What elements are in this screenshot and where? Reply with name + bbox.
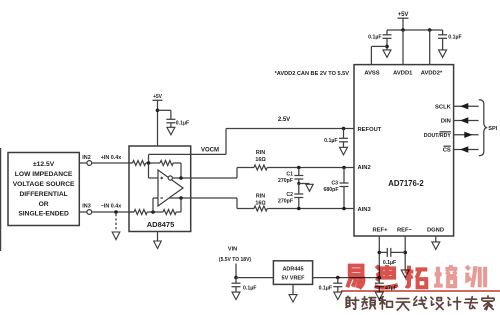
optional ground (dashed) on -IN xyxy=(112,214,120,240)
wire REF- xyxy=(404,236,406,270)
wire -IN to AD8475 xyxy=(92,211,134,213)
svg-text:0.1µF: 0.1µF xyxy=(448,35,461,41)
svg-text:RIN: RIN xyxy=(256,150,265,156)
node AVDD2 rail xyxy=(428,28,432,32)
label +IN 0.4x xyxy=(101,155,122,161)
wire SCLK xyxy=(454,105,479,107)
node C2 bottom xyxy=(297,207,301,211)
svg-text:+IN 0.4x: +IN 0.4x xyxy=(101,155,122,161)
watermark red underline xyxy=(341,290,500,292)
capacitor 0.1uF (VIN) xyxy=(232,278,257,293)
wire +IN from source to terminal xyxy=(79,162,87,164)
wire ADR445 out to REF+ xyxy=(313,277,380,279)
capacitor 0.1uF left (AVSS) xyxy=(368,30,391,50)
resistor input R bottom xyxy=(129,210,163,215)
watermark slogan char 5 xyxy=(414,297,427,309)
terminal IN3 xyxy=(82,204,91,215)
svg-text:REF−: REF− xyxy=(397,228,413,234)
svg-text:270pF: 270pF xyxy=(278,198,293,204)
label 2.5V xyxy=(278,117,290,123)
svg-text:AVSS: AVSS xyxy=(364,71,379,77)
svg-text:VIN: VIN xyxy=(228,247,237,253)
watermark logo big char 5 xyxy=(466,266,485,287)
resistor feedback R bottom xyxy=(163,198,181,215)
pin REFOUT xyxy=(358,127,382,133)
pin DIN xyxy=(441,119,451,125)
note AVDD2 xyxy=(275,71,350,77)
svg-text:AVDD2*: AVDD2* xyxy=(421,71,443,77)
svg-text:IN2: IN2 xyxy=(82,155,90,161)
svg-text:DIFFERENTIAL: DIFFERENTIAL xyxy=(19,191,67,198)
op-amp triangle U1 xyxy=(158,170,183,206)
wire DGND xyxy=(435,236,437,242)
resistor RIN top 16ohm xyxy=(254,150,267,170)
wire top output to AIN2 level xyxy=(191,168,254,179)
watermark slogan char 3 xyxy=(379,297,392,309)
ground (DGND) xyxy=(432,242,440,250)
svg-text:AIN2: AIN2 xyxy=(358,165,371,171)
svg-text:C2: C2 xyxy=(286,192,293,198)
ground (AD8475 supply cap) xyxy=(167,127,175,135)
svg-text:0.1µF: 0.1µF xyxy=(368,35,381,41)
node C1-C2 midpoint xyxy=(297,182,300,185)
capacitor 0.1uF (REFOUT) xyxy=(324,129,348,148)
svg-text:*AVDD2 CAN BE 2V TO 5.5V: *AVDD2 CAN BE 2V TO 5.5V xyxy=(275,71,350,77)
label -IN 0.4x xyxy=(101,204,122,210)
wire CS xyxy=(454,149,479,151)
svg-text:ADR445: ADR445 xyxy=(282,267,303,273)
node REF+ bottom xyxy=(378,276,382,280)
ground (VREF 0.1uF) xyxy=(334,292,342,300)
capacitor C1 270pF xyxy=(278,168,303,185)
wire bottom output xyxy=(169,197,191,199)
watermark logo big char 4 xyxy=(434,265,457,286)
watermark slogan char 6 xyxy=(431,297,443,309)
watermark logo big char 1 xyxy=(347,266,363,289)
wire VIN xyxy=(235,264,237,278)
arrow DIN (in) xyxy=(460,117,468,123)
supply rail xyxy=(387,29,443,31)
svg-text:CS: CS xyxy=(443,148,451,154)
node A top summing xyxy=(147,161,151,165)
wire node A to amp input xyxy=(149,163,159,178)
wire AVDD1 xyxy=(402,30,404,65)
capacitor 0.1uF (VREF) xyxy=(319,278,343,293)
watermark slogan char 1 xyxy=(346,296,359,309)
ground (ADR445) xyxy=(289,284,297,302)
wire -IN from source to terminal xyxy=(79,211,87,213)
watermark logo big char 3 xyxy=(405,266,428,288)
label VIN xyxy=(219,247,251,264)
svg-text:270pF: 270pF xyxy=(278,178,293,184)
terminal IN2 xyxy=(82,155,91,165)
svg-text:0.1µF: 0.1µF xyxy=(383,260,396,266)
svg-text:DGND: DGND xyxy=(427,228,444,234)
wire AVSS xyxy=(371,46,387,64)
wire to AIN3 xyxy=(267,208,354,210)
wire REF+ xyxy=(378,236,380,278)
svg-text:680pF: 680pF xyxy=(324,187,339,193)
svg-text:±12.5V: ±12.5V xyxy=(33,161,55,168)
svg-text:VOLTAGE SOURCE: VOLTAGE SOURCE xyxy=(13,181,75,188)
ground (VIN cap) xyxy=(232,292,240,300)
svg-text:0.1µF: 0.1µF xyxy=(324,138,337,144)
svg-text:OR: OR xyxy=(39,201,49,208)
scan edge artifact line xyxy=(0,148,2,251)
node C3 top xyxy=(342,166,346,170)
wire VIN to ADR445 xyxy=(236,277,273,279)
inversion bubble top output xyxy=(168,176,172,180)
svg-text:2.5V: 2.5V xyxy=(278,117,290,123)
node ADR out cap xyxy=(336,276,340,280)
svg-text:LOW IMPEDANCE: LOW IMPEDANCE xyxy=(15,171,73,178)
pin DOUT/RDY (overline RDY) xyxy=(424,132,452,139)
capacitor 47uF (VREF) xyxy=(375,278,397,293)
node VIN xyxy=(234,276,238,280)
capacitor 0.1uF right (AVDD2) xyxy=(438,30,462,50)
node top output xyxy=(179,176,183,180)
svg-text:0.1µF: 0.1µF xyxy=(319,286,332,292)
svg-text:+5V: +5V xyxy=(398,12,409,18)
pin CS (overline) xyxy=(443,146,451,154)
node AVSS cap xyxy=(385,45,389,49)
svg-text:0.1µF: 0.1µF xyxy=(243,286,256,292)
svg-text:0.1µF: 0.1µF xyxy=(176,120,189,126)
pin SCLK xyxy=(435,104,452,110)
wire to AIN2 xyxy=(267,167,354,169)
capacitor 0.1uF (REF+ to REF-) xyxy=(379,248,405,266)
svg-text:DIN: DIN xyxy=(441,119,451,125)
svg-text:AVDD1: AVDD1 xyxy=(393,71,413,77)
svg-text:DOUT/RDY: DOUT/RDY xyxy=(424,133,452,139)
pin labels bottom xyxy=(373,228,445,234)
node B bottom summing xyxy=(151,210,155,214)
ground (REF-) xyxy=(401,270,409,278)
node bottom output xyxy=(179,196,183,200)
ground (AD8475 block) xyxy=(154,232,162,249)
ground (47uF) xyxy=(375,292,383,300)
svg-text:C3: C3 xyxy=(331,180,338,186)
op-amp block AD8475 xyxy=(129,146,191,232)
VOCM inner wire xyxy=(149,154,191,163)
+5V supply (AD8475) xyxy=(153,94,163,146)
svg-text:+5V: +5V xyxy=(153,94,163,100)
watermark slogan char 7 xyxy=(448,297,461,309)
wire AVDD2 xyxy=(429,30,431,65)
svg-text:AD7176-2: AD7176-2 xyxy=(388,179,424,188)
pin AIN2 xyxy=(358,165,371,171)
capacitor C3 680pF xyxy=(324,168,349,209)
wire DIN xyxy=(454,120,479,122)
voltage source box xyxy=(8,153,79,226)
svg-text:SPI: SPI xyxy=(488,126,497,132)
node C1 top xyxy=(297,166,301,170)
node AVDD1 rail xyxy=(401,28,405,32)
arrow DOUT (out) xyxy=(464,132,472,138)
resistor feedback R top xyxy=(160,161,181,179)
wire node B to amp input xyxy=(153,198,158,212)
svg-text:REF+: REF+ xyxy=(373,228,389,234)
ground (REFOUT cap) xyxy=(340,147,348,155)
svg-text:AD8475: AD8475 xyxy=(147,220,175,229)
arrow SCLK (in) xyxy=(460,103,468,109)
+5V supply (ADC) xyxy=(398,12,409,30)
regulator ADR445 xyxy=(273,261,312,285)
watermark slogan char 2 xyxy=(362,297,376,309)
pin AIN3 xyxy=(358,207,372,213)
resistor input R top xyxy=(129,161,160,166)
watermark slogan char 9 xyxy=(482,296,494,310)
ground (left cap) xyxy=(383,50,391,58)
wire top output xyxy=(172,177,190,179)
arrow CS (in) xyxy=(460,146,468,152)
node REFOUT cap xyxy=(342,127,346,131)
wire bottom output to AIN3 level xyxy=(191,198,254,209)
brace SPI xyxy=(479,100,498,156)
svg-text:SCLK: SCLK xyxy=(435,104,452,110)
svg-text:16Ω: 16Ω xyxy=(255,157,266,163)
resistor RIN bottom 16ohm xyxy=(254,194,267,212)
watermark slogan char 4 xyxy=(396,299,409,311)
svg-text:−IN 0.4x: −IN 0.4x xyxy=(101,204,122,210)
svg-text:5V VREF: 5V VREF xyxy=(282,276,306,282)
node on +5V line xyxy=(156,109,160,113)
ground stub (C1-C2) xyxy=(299,184,313,192)
svg-text:AIN3: AIN3 xyxy=(358,207,372,213)
svg-text:REFOUT: REFOUT xyxy=(358,127,382,133)
svg-text:VOCM: VOCM xyxy=(201,147,219,153)
svg-text:IN3: IN3 xyxy=(82,204,90,210)
pin labels top xyxy=(364,71,443,77)
node REF+ cap xyxy=(378,251,382,255)
label VOCM xyxy=(201,147,219,153)
svg-text:16Ω: 16Ω xyxy=(255,201,266,207)
node C3 bottom xyxy=(342,207,346,211)
watermark logo big char 2 xyxy=(375,265,398,287)
node on -IN wire xyxy=(114,210,118,214)
svg-text:RIN: RIN xyxy=(256,194,265,200)
svg-text:C1: C1 xyxy=(286,172,293,178)
capacitor 0.1uF (AD8475 supply) xyxy=(158,110,190,127)
ADC block AD7176-2 xyxy=(354,65,454,236)
wire +IN to AD8475 xyxy=(92,162,133,164)
svg-text:(5.5V TO 18V): (5.5V TO 18V) xyxy=(219,257,251,263)
capacitor C2 270pF xyxy=(278,184,303,209)
watermark slogan char 8 xyxy=(465,297,478,309)
wire DOUT/RDY xyxy=(454,134,479,136)
wire VOCM to REFOUT (2.5V net) xyxy=(191,129,354,155)
svg-text:SINGLE-ENDED: SINGLE-ENDED xyxy=(18,211,69,218)
ground (right cap) xyxy=(439,50,447,58)
node REF- cap xyxy=(403,251,407,255)
